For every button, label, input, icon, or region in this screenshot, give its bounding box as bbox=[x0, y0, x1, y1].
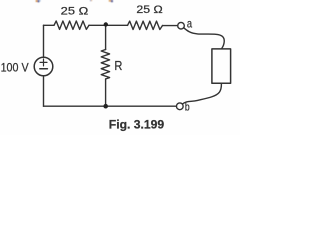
svg-text:a: a bbox=[187, 16, 192, 30]
junction dot bottom (node D) bbox=[103, 104, 108, 109]
svg-text:b: b bbox=[185, 102, 190, 114]
resistor R1 25 ohm (top-left zigzag) bbox=[54, 21, 89, 29]
wire R branch top lead bbox=[105, 25, 107, 49]
wire left rail upper bbox=[43, 25, 45, 57]
voltage source V1 circle bbox=[34, 57, 53, 76]
junction dot top (node C) bbox=[104, 22, 108, 26]
svg-text:25 Ω: 25 Ω bbox=[136, 4, 162, 16]
svg-text:25 Ω: 25 Ω bbox=[61, 6, 89, 18]
wire node C to R2 bbox=[106, 24, 128, 26]
wire left rail lower bbox=[43, 76, 45, 106]
terminal a (open circle) bbox=[178, 22, 185, 29]
wire curve load box to terminal b bbox=[183, 84, 222, 104]
voltage source plus sign bbox=[40, 59, 47, 66]
wire R branch bottom lead bbox=[105, 79, 107, 106]
voltage source minus sign bbox=[40, 68, 48, 70]
terminal b (open circle) bbox=[176, 103, 183, 110]
wire curve terminal a to load box bbox=[184, 28, 225, 49]
wire top-left segment bbox=[44, 24, 55, 26]
svg-text:Fig. 3.199: Fig. 3.199 bbox=[109, 117, 165, 131]
wire R2 to terminal a bbox=[163, 25, 178, 27]
svg-text:R: R bbox=[114, 59, 122, 73]
load box (rectangle) bbox=[212, 49, 231, 83]
wire bottom-left: node D to source bbox=[44, 105, 106, 107]
wire bottom-right: terminal b to node D bbox=[106, 105, 177, 107]
stray colored speck group at top edge (cropped text from line above) bbox=[36, 0, 113, 2]
wire R1 to node C bbox=[89, 24, 106, 26]
svg-text:100 V: 100 V bbox=[1, 61, 29, 75]
resistor R2 25 ohm (top-right zigzag) bbox=[128, 21, 163, 29]
resistor R (vertical zigzag) bbox=[101, 50, 109, 80]
